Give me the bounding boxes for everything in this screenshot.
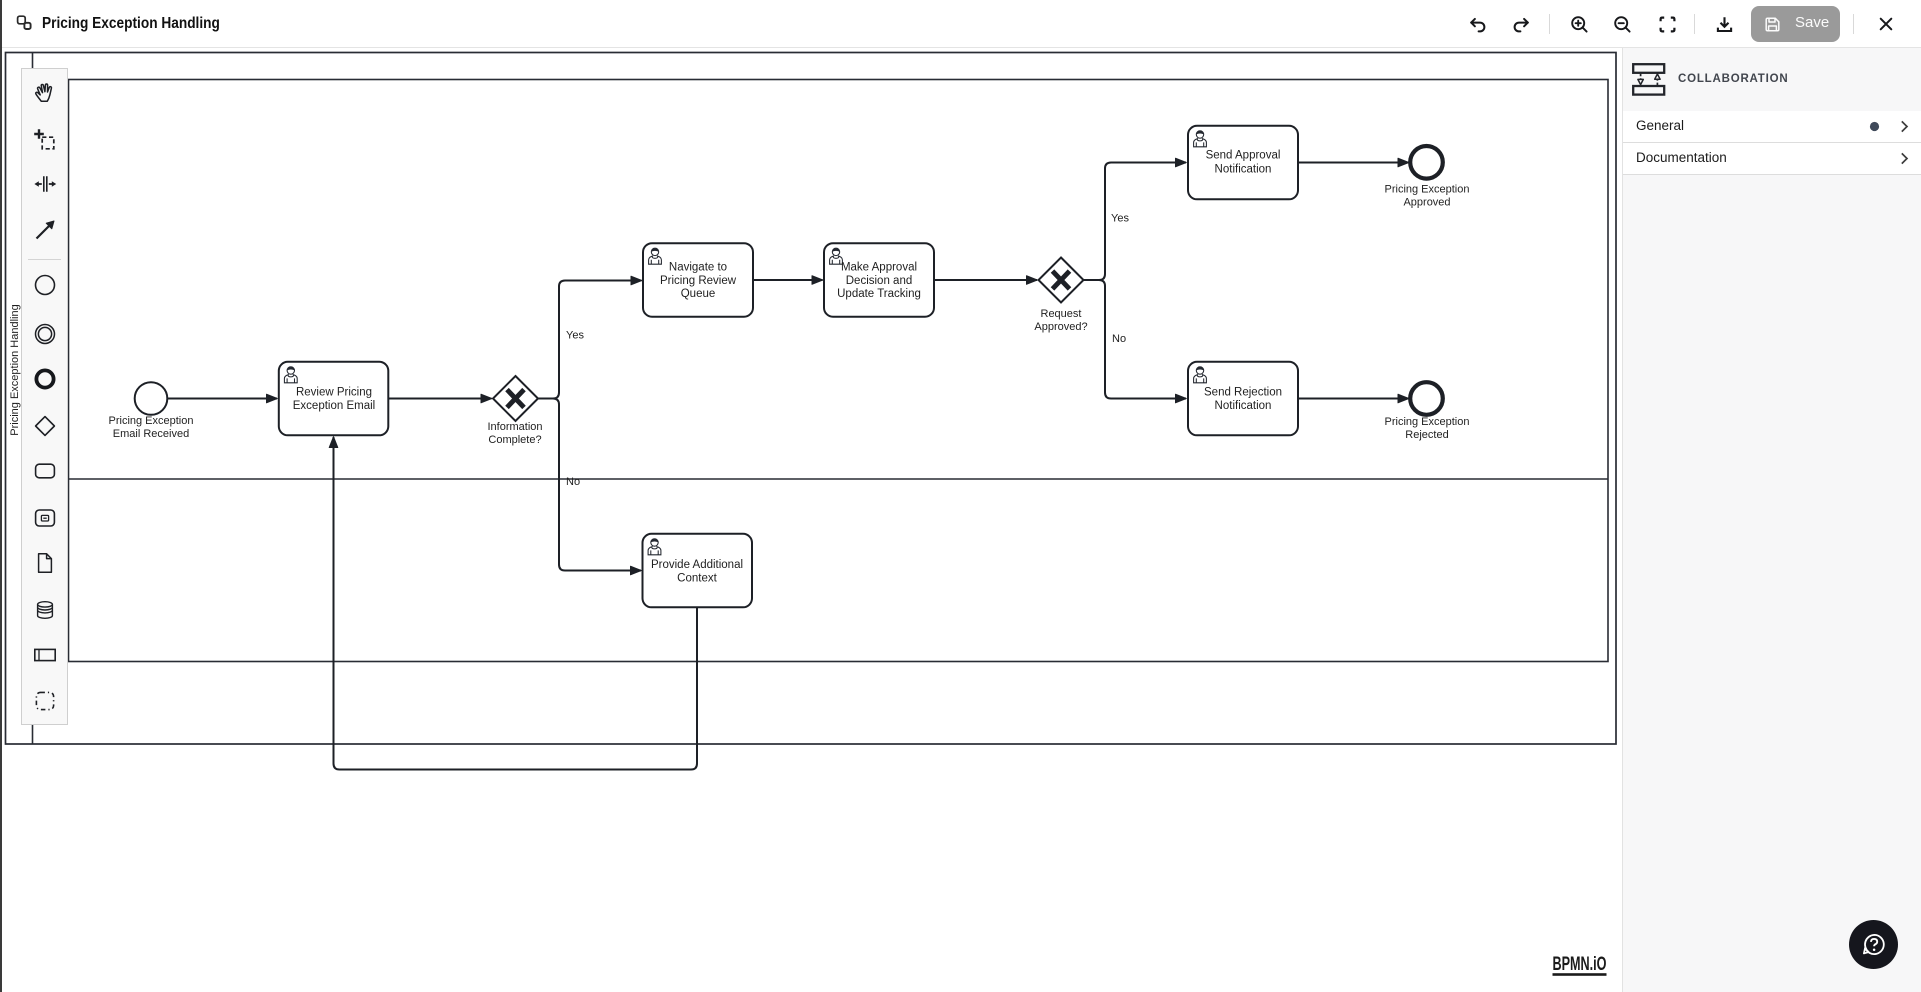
app icon bbox=[16, 15, 36, 35]
user task Send Approval Notification bbox=[1188, 126, 1298, 200]
start event Pricing Exception Email Received bbox=[135, 382, 168, 415]
svg-text:No: No bbox=[566, 476, 580, 488]
svg-text:Pricing Exception: Pricing Exception bbox=[1385, 416, 1470, 428]
create gateway bbox=[33, 414, 57, 438]
separator bbox=[28, 259, 61, 260]
create group bbox=[33, 689, 57, 713]
redo bbox=[1511, 14, 1532, 35]
svg-text:Rejected: Rejected bbox=[1405, 429, 1448, 441]
wire Send Approval to end event bbox=[1298, 162, 1409, 164]
wire Send Rejection to end event bbox=[1298, 398, 1409, 400]
svg-text:Pricing Review: Pricing Review bbox=[660, 275, 737, 287]
undo bbox=[1467, 14, 1488, 35]
svg-text:Request: Request bbox=[1041, 308, 1082, 320]
BPMN.iO logo bbox=[1553, 953, 1607, 976]
user task Provide Additional Context bbox=[643, 534, 753, 608]
svg-text:Decision and: Decision and bbox=[846, 275, 912, 287]
wire gateway2 Yes up to Send Approval Notification bbox=[1084, 163, 1187, 281]
global connect tool bbox=[33, 218, 57, 242]
lane set rect bbox=[69, 80, 1609, 662]
svg-text:Yes: Yes bbox=[1111, 213, 1129, 225]
svg-text:Pricing Exception Handling: Pricing Exception Handling bbox=[9, 304, 21, 435]
create start event bbox=[33, 273, 57, 297]
wire loop Provide Additional Context back to Review task bbox=[334, 437, 698, 770]
svg-text:Navigate to: Navigate to bbox=[669, 261, 727, 273]
user task Send Rejection Notification bbox=[1188, 362, 1298, 436]
svg-text:Email Received: Email Received bbox=[113, 428, 189, 440]
svg-text:No: No bbox=[1112, 333, 1126, 345]
create intermediate event bbox=[33, 322, 57, 346]
svg-text:Pricing Exception: Pricing Exception bbox=[109, 415, 194, 427]
svg-text:Send Approval: Send Approval bbox=[1206, 150, 1281, 162]
create subprocess bbox=[33, 506, 57, 530]
svg-text:Exception Email: Exception Email bbox=[293, 400, 375, 412]
svg-text:Provide Additional: Provide Additional bbox=[651, 559, 743, 571]
wire gateway No down to Provide Additional Context bbox=[538, 399, 641, 571]
svg-text:Notification: Notification bbox=[1215, 163, 1272, 175]
participant pool Pricing Exception Handling bbox=[6, 53, 1617, 745]
close bbox=[1876, 14, 1896, 34]
save button bbox=[1751, 6, 1840, 42]
end event Pricing Exception Approved bbox=[1410, 146, 1443, 179]
wire Make Approval to gateway2 bbox=[934, 279, 1037, 281]
svg-text:Context: Context bbox=[677, 573, 717, 585]
zoom out bbox=[1612, 14, 1633, 35]
svg-text:Pricing Exception: Pricing Exception bbox=[1385, 184, 1470, 196]
user task Navigate to Pricing Review Queue bbox=[643, 243, 753, 317]
user task Make Approval Decision and Update Tracking bbox=[824, 243, 934, 317]
svg-text:Approved: Approved bbox=[1403, 197, 1450, 209]
collaboration icon bbox=[1632, 63, 1666, 96]
svg-text:Information: Information bbox=[487, 421, 542, 433]
create data object bbox=[33, 551, 57, 575]
user task Review Pricing Exception Email bbox=[279, 362, 389, 436]
lane divider bbox=[69, 478, 1609, 480]
lasso tool bbox=[33, 128, 57, 152]
create data store bbox=[33, 598, 57, 622]
wire start to Review task bbox=[168, 398, 278, 400]
pool label band divider bbox=[32, 53, 34, 745]
svg-text:BPMN.iO: BPMN.iO bbox=[1553, 953, 1607, 975]
gateway Information Complete? bbox=[493, 376, 538, 421]
gateway Request Approved? bbox=[1039, 258, 1084, 303]
create end event bbox=[33, 367, 57, 391]
svg-text:Make Approval: Make Approval bbox=[841, 261, 917, 273]
wire gateway2 No down to Send Rejection Notification bbox=[1084, 280, 1187, 399]
create participant bbox=[33, 643, 57, 667]
end event Pricing Exception Rejected bbox=[1410, 382, 1443, 415]
space tool bbox=[33, 172, 57, 196]
svg-text:Yes: Yes bbox=[566, 330, 584, 342]
help bubble button bbox=[1849, 920, 1898, 969]
wire Review task to gateway bbox=[388, 398, 491, 400]
zoom in bbox=[1569, 14, 1590, 35]
svg-text:Review Pricing: Review Pricing bbox=[296, 387, 372, 399]
create task bbox=[33, 459, 57, 483]
fit viewport bbox=[1657, 14, 1678, 35]
svg-text:Update Tracking: Update Tracking bbox=[837, 288, 921, 300]
wire Navigate to Make Approval bbox=[753, 279, 823, 281]
hand tool bbox=[33, 80, 57, 104]
download bbox=[1714, 14, 1735, 35]
svg-text:Approved?: Approved? bbox=[1034, 321, 1087, 333]
svg-text:Notification: Notification bbox=[1215, 400, 1272, 412]
svg-text:Queue: Queue bbox=[681, 288, 716, 300]
svg-text:Send Rejection: Send Rejection bbox=[1204, 387, 1282, 399]
svg-text:Complete?: Complete? bbox=[488, 434, 541, 446]
wire gateway Yes up to Navigate task bbox=[538, 281, 642, 399]
